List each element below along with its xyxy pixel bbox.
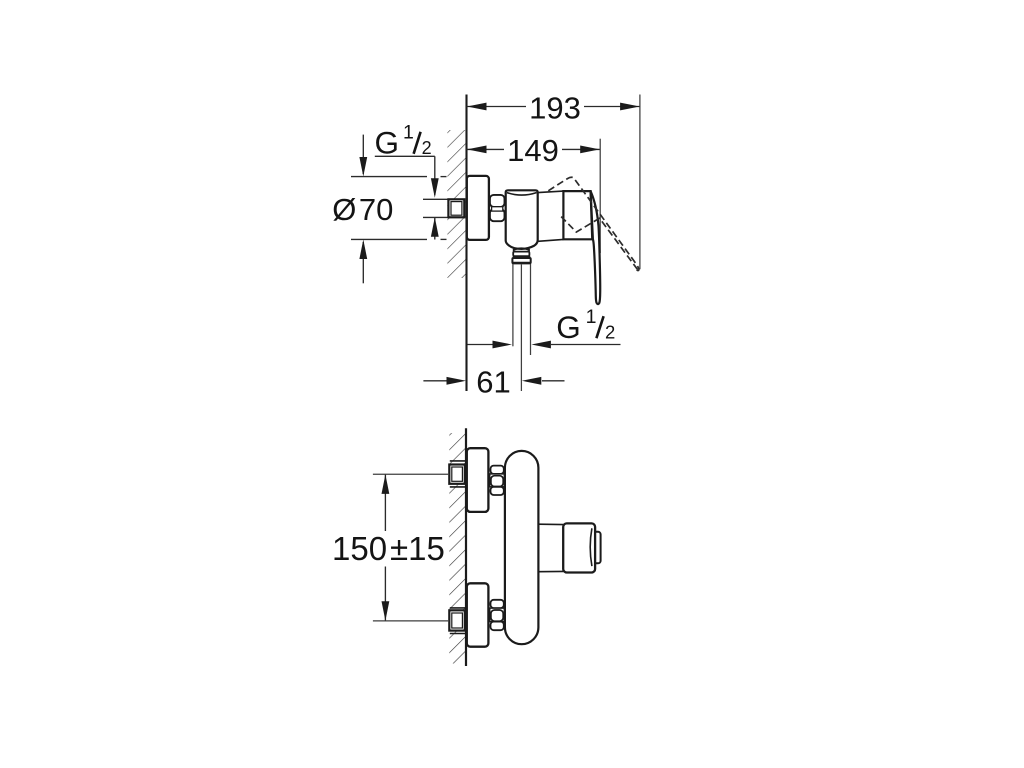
union hex nut (top view) bbox=[490, 195, 505, 221]
outlet dark band bbox=[513, 256, 531, 258]
lower fitting flange lines bbox=[450, 607, 466, 609]
svg-text:G: G bbox=[556, 309, 581, 345]
concealed supply fitting (square in wall, top view) bbox=[448, 199, 464, 217]
extension line (149) bbox=[599, 139, 601, 253]
Ø70 arrow above bbox=[362, 135, 364, 174]
svg-text:149: 149 bbox=[507, 133, 559, 168]
handle lever raised (dashed alternate position) bbox=[548, 177, 639, 270]
extension line right (193) bbox=[639, 95, 641, 270]
body shoulder arc bbox=[507, 193, 537, 196]
svg-text:2: 2 bbox=[605, 321, 615, 342]
svg-text:2: 2 bbox=[422, 138, 432, 158]
lower hex nut bbox=[490, 600, 505, 630]
cartridge housing lines bbox=[538, 191, 564, 193]
svg-text:±15: ±15 bbox=[390, 530, 445, 567]
hose thread left line bbox=[512, 264, 514, 346]
svg-text:150: 150 bbox=[332, 530, 387, 567]
outlet centerline bbox=[520, 265, 522, 392]
svg-text:Ø 70: Ø 70 bbox=[332, 192, 393, 227]
upper escutcheon bbox=[467, 448, 489, 512]
outlet collar ring bbox=[513, 252, 529, 257]
dimension 149 line bbox=[467, 146, 601, 154]
handle knob (front view) bbox=[563, 523, 595, 572]
wall hatch (top view) bbox=[447, 130, 466, 278]
mixer body (top view) bbox=[506, 190, 538, 249]
extension line lower (150 dim) bbox=[373, 620, 449, 622]
dimension 193 line bbox=[467, 103, 641, 111]
G 1/2 dimension (outlet thread) bbox=[468, 341, 621, 349]
dimension 150 line with arrows bbox=[382, 474, 390, 620]
leader of G 1/2: underline, corner and down arrow bbox=[375, 156, 439, 239]
svg-text:193: 193 bbox=[529, 90, 581, 125]
svg-text:1: 1 bbox=[586, 306, 597, 328]
escutcheon (wall flange, top view) bbox=[467, 176, 489, 240]
svg-text:G: G bbox=[375, 125, 400, 161]
svg-text:61: 61 bbox=[476, 364, 510, 399]
extension line upper (150 dim) bbox=[373, 473, 449, 475]
knob end tab bbox=[592, 532, 601, 564]
upper fitting flange lines bbox=[450, 460, 466, 462]
lower concealed fitting (square) bbox=[449, 610, 465, 630]
mixer body capsule (front view) bbox=[505, 451, 539, 644]
label G 1/2 (top left) bbox=[375, 122, 432, 161]
Ø70 lower extension line D bbox=[351, 238, 427, 240]
upper concealed fitting (square) bbox=[449, 465, 465, 484]
wall surface line bbox=[465, 95, 467, 392]
Ø70 arrow below bbox=[362, 242, 364, 283]
wall hatch (bottom view) bbox=[449, 433, 465, 664]
handle lever (solid, down position) bbox=[591, 191, 601, 304]
Ø70 dimension: upper extension line A bbox=[351, 135, 447, 284]
lower escutcheon bbox=[467, 583, 489, 646]
hose thread right line bbox=[530, 264, 532, 355]
wall surface line bbox=[465, 428, 467, 666]
upper hex nut bbox=[490, 466, 505, 495]
label G 1/2 (outlet) bbox=[556, 306, 615, 345]
knob face arc bbox=[590, 528, 592, 566]
G1/2 thread lines B and C (supply fitting) bbox=[423, 198, 448, 200]
outlet nut bbox=[512, 258, 530, 263]
valve stub lines bbox=[538, 523, 563, 525]
dimension 61 bbox=[423, 377, 564, 385]
shower outlet neck bbox=[514, 248, 530, 251]
svg-text:1: 1 bbox=[403, 122, 414, 144]
handle base (top view) bbox=[563, 191, 593, 239]
